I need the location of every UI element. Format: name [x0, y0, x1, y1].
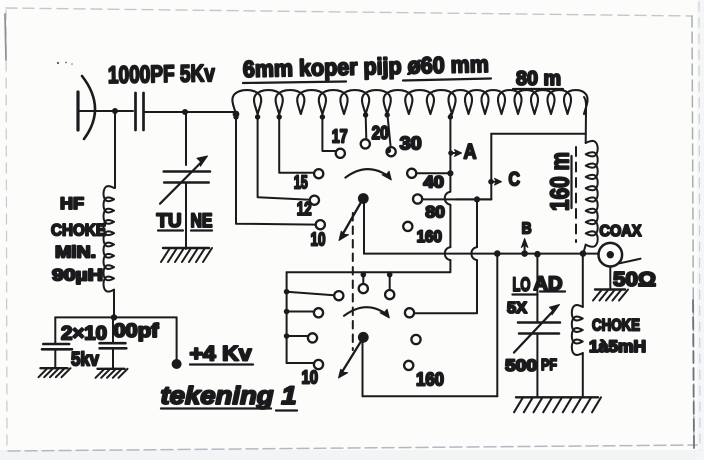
contact sw2 r3: [308, 333, 317, 342]
coax connector: [599, 243, 623, 267]
capacitor 1000pf A plate1: [43, 343, 69, 346]
svg-text:6mm koper pijp ø60 mm: 6mm koper pijp ø60 mm: [243, 51, 489, 82]
inductor 160m coil: [586, 141, 598, 247]
ground main bottom: [516, 396, 598, 398]
switch 2 rotation arc: [344, 307, 386, 316]
switch 2 wiper to bottom wire: [362, 343, 364, 397]
shaft link dashed: [352, 213, 354, 350]
switch 2 rotor: [358, 332, 369, 343]
svg-text:CHOKE: CHOKE: [592, 317, 640, 335]
capacitor 1000PF plate 1: [134, 93, 137, 130]
switch 1 wiper to output wire: [363, 204, 365, 254]
svg-text:00pf: 00pf: [113, 321, 159, 342]
svg-text:30: 30: [400, 133, 422, 153]
variable capacitor TUNE plate top: [164, 170, 210, 173]
wire output line: [364, 253, 598, 255]
wire down to HF choke: [114, 111, 116, 188]
wire bottom up to output: [496, 254, 498, 397]
wire tune cap to ground: [185, 183, 187, 250]
wire load cap to ground: [536, 334, 538, 397]
svg-text:C: C: [509, 170, 521, 191]
node antenna junction: [112, 108, 118, 114]
svg-text:1000PF 5Kv: 1000PF 5Kv: [108, 60, 216, 89]
contact 17: [336, 149, 345, 158]
contact 160: [403, 222, 412, 231]
underline 160m: [570, 156, 572, 208]
wire 477 vertical down: [476, 199, 478, 247]
wire tapA to switch2 bus: [287, 260, 451, 272]
wire coax to ground: [609, 267, 611, 289]
capacitor 1000PF plate 2: [142, 93, 145, 130]
scan border right edge: [692, 16, 694, 448]
svg-text:160: 160: [417, 228, 442, 246]
wire hop over output line: [445, 247, 451, 260]
wire tap 10: [236, 114, 316, 225]
capacitor 1000pf A plate2: [42, 348, 72, 351]
node bus dot 2: [284, 309, 290, 315]
wire down to blocking cap A: [54, 317, 56, 344]
node tap17: [320, 114, 325, 119]
svg-text:80 m: 80 m: [516, 68, 561, 90]
wire hv bus horizontal: [55, 316, 176, 318]
svg-text:90µH: 90µH: [52, 266, 103, 285]
arrow C: [488, 179, 494, 185]
switch 2 contact row2 wire: [287, 311, 314, 313]
node 477 junction: [474, 196, 480, 202]
wire 40 to A node: [416, 172, 450, 174]
inductor choke 1a5mH: [572, 305, 583, 355]
capacitor 1000pf B plate1: [100, 342, 126, 345]
variable capacitor LOAD plate2: [519, 332, 559, 335]
contact sw2 160: [404, 361, 413, 370]
contact sw2 right (C gang): [405, 308, 414, 317]
wire tap 15: [279, 114, 314, 173]
capacitor 1000pf B plate2: [100, 347, 127, 350]
wire 80 to C node: [422, 198, 491, 200]
svg-text:5X: 5X: [507, 300, 528, 317]
svg-text:LO: LO: [513, 275, 531, 296]
node output-sw2: [494, 250, 501, 257]
node tune junction: [182, 109, 188, 115]
contact sw2 r1: [334, 291, 343, 300]
wire switch2 bottom: [363, 395, 498, 397]
node +4kv terminal: [172, 359, 182, 369]
svg-text:HF: HF: [60, 194, 84, 213]
node 160m output: [580, 250, 587, 257]
svg-text:12: 12: [297, 199, 312, 219]
wire tap A vertical upper: [449, 114, 451, 188]
wire capacitor to coil: [144, 111, 237, 113]
page bottom strip: [0, 450, 704, 460]
inductor HF choke: [104, 186, 115, 292]
wire antenna to capacitor: [79, 110, 133, 112]
switch 1 rotation arc: [345, 169, 388, 177]
wire tap 20: [365, 112, 368, 139]
scan border right edge outer: [699, 2, 700, 450]
wire 160m coil to output: [583, 245, 586, 254]
wire capB to ground: [112, 348, 114, 368]
variable capacitor TUNE plate bottom: [164, 181, 209, 184]
node tapA top: [448, 114, 453, 119]
wire tap 17: [322, 114, 335, 151]
wire capA to ground: [54, 349, 56, 368]
wire choke to ground: [582, 353, 584, 397]
ground tune: [163, 247, 209, 249]
antenna arc: [82, 76, 95, 139]
wire hop 477 over output: [471, 247, 477, 260]
wire choke to junction: [113, 290, 115, 318]
wire to +4kv terminal: [176, 317, 178, 360]
node coil start: [233, 111, 240, 118]
svg-text:2×10: 2×10: [61, 324, 107, 345]
node bus dot 1: [284, 289, 290, 295]
coax shield tail: [618, 259, 641, 264]
node tap20: [363, 112, 368, 117]
wire choke branch upper: [582, 254, 584, 307]
antenna mast bar: [76, 92, 79, 130]
contact 12: [310, 196, 319, 205]
coil form dashed 160m: [575, 147, 577, 242]
svg-text:NE: NE: [191, 211, 213, 232]
svg-text:10: 10: [311, 229, 326, 249]
node A junction: [447, 170, 453, 176]
arrow A: [448, 150, 453, 155]
inductor main coil section 1: [232, 90, 455, 114]
node tap15: [277, 114, 282, 119]
arrow B: [524, 245, 526, 252]
contact sw2 r4: [314, 360, 323, 369]
node tap10: [233, 114, 238, 119]
wire tap 30: [387, 112, 390, 147]
variable capacitor LOAD plate1: [518, 321, 560, 324]
inductor main coil section 2 (80m): [449, 90, 588, 114]
contact 40: [407, 169, 416, 178]
scan specks: [57, 62, 59, 64]
scan border top edge: [6, 8, 692, 16]
wire 80m coil end down: [584, 97, 586, 143]
wire 477 to switch2 contact: [414, 260, 477, 313]
svg-text:5kv: 5kv: [71, 349, 99, 370]
scan border left edge dark top: [5, 14, 6, 60]
switch 1 wiper arrow: [343, 204, 361, 235]
svg-text:+4 Kv: +4 Kv: [190, 343, 252, 366]
contact sw2 r2: [314, 308, 323, 317]
svg-text:500: 500: [505, 356, 537, 375]
svg-text:B: B: [522, 221, 532, 238]
wire hop over 80 line: [445, 188, 451, 247]
svg-text:50Ω: 50Ω: [613, 269, 656, 291]
svg-text:COAX: COAX: [600, 223, 642, 240]
switch 2 bus left vertical: [286, 272, 288, 363]
variable capacitor TUNE arrow: [160, 160, 204, 204]
variable capacitor LOAD arrow: [514, 308, 556, 353]
svg-text:PF: PF: [541, 357, 557, 374]
wire C node horizontal: [456, 198, 491, 200]
svg-text:20: 20: [372, 123, 389, 143]
switch 1 rotor: [358, 193, 369, 204]
switch 2 contact row4 wire: [287, 362, 314, 364]
wire tap 12: [258, 114, 310, 200]
scan border right edge lower dark: [693, 300, 694, 448]
wire top box horizontal (C node): [491, 133, 585, 135]
svg-text:A: A: [464, 141, 477, 164]
contact 15: [314, 169, 323, 178]
scan border bottom edge: [8, 445, 697, 451]
svg-text:40: 40: [423, 174, 444, 192]
ground capA: [41, 367, 68, 369]
node B: [521, 250, 528, 257]
switch 2 contact row3 wire: [287, 335, 308, 337]
node load junction: [534, 251, 541, 258]
node tap12: [255, 114, 260, 119]
switch 2 wiper arrow: [342, 342, 360, 372]
wire down to load cap: [536, 254, 538, 322]
svg-text:MiN.: MiN.: [55, 243, 96, 262]
node tap30 dot2: [386, 148, 391, 153]
coax center pin: [607, 251, 614, 258]
contact 30: [387, 147, 396, 156]
contact sw2 isolated: [411, 335, 420, 344]
ground capB: [98, 368, 125, 370]
contact sw2 top stem 1: [362, 272, 364, 283]
svg-text:80: 80: [425, 204, 445, 222]
ground coax: [595, 288, 625, 290]
switch 2 contact row1 wire: [287, 292, 334, 296]
svg-text:CHOKE: CHOKE: [51, 221, 106, 240]
svg-text:15: 15: [294, 172, 308, 192]
contact 10: [316, 220, 325, 229]
svg-text:tekening 1: tekening 1: [161, 382, 297, 410]
node bus dot 3: [284, 333, 290, 339]
svg-text:TU: TU: [157, 211, 182, 232]
svg-text:10: 10: [302, 368, 319, 388]
contact 20: [361, 139, 370, 148]
svg-text:17: 17: [332, 126, 348, 146]
contact sw2 top stem 2: [389, 272, 391, 289]
wire C vertical: [490, 134, 492, 200]
svg-text:1à5mH: 1à5mH: [589, 338, 646, 356]
contact 80: [413, 194, 422, 203]
svg-text:160: 160: [416, 370, 444, 390]
node hv junction: [111, 314, 117, 320]
svg-text:160 m: 160 m: [545, 152, 575, 211]
wire down to tune capacitor: [185, 112, 187, 165]
scan border left edge: [6, 10, 7, 450]
wire down to blocking cap B: [112, 317, 114, 343]
node tap30: [385, 112, 390, 117]
